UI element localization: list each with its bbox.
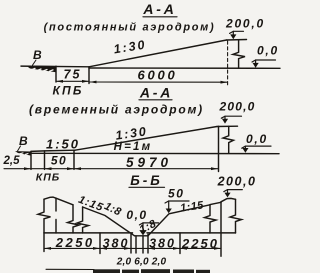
svg-text:75: 75 — [64, 68, 82, 82]
svg-text:КПБ: КПБ — [52, 84, 83, 98]
runway top line section 1 — [21, 65, 89, 68]
slope 1:30 section 1 — [89, 40, 227, 67]
svg-text:0,0: 0,0 — [246, 132, 268, 146]
dim 75 arrows — [56, 80, 89, 83]
right bank top — [221, 198, 236, 201]
slope 1:30 section 2 — [75, 127, 217, 151]
break vertical x73 with zigzag — [68, 205, 80, 233]
title2 underline — [139, 99, 172, 101]
svg-text:0,0: 0,0 — [126, 208, 147, 222]
dim arrows section 3 — [44, 247, 221, 250]
vertical x218.5 section 2 (platform edge + dim extension) — [218, 126, 220, 171]
slope to ditch left — [83, 207, 135, 236]
title B-B underline — [129, 186, 165, 188]
break vertical x210 with zigzag — [205, 205, 217, 233]
svg-text:КПБ: КПБ — [36, 172, 60, 184]
svg-text:Б-Б: Б-Б — [130, 173, 163, 188]
dim extension x100 — [99, 233, 101, 254]
vertical x74 section 2 — [73, 150, 75, 169]
elevation mark 0.0 section 3 — [126, 208, 158, 235]
svg-text:380: 380 — [103, 237, 130, 251]
slope 1:15 left segment — [56, 198, 73, 205]
svg-text:(временный аэродром): (временный аэродром) — [29, 103, 204, 117]
title underline — [143, 16, 177, 18]
dim 75 line — [56, 80, 89, 82]
left bank left vertical with zigzag — [38, 199, 51, 233]
top edge to right bank — [210, 202, 221, 204]
dim extension x44 below baseline — [43, 233, 45, 252]
svg-text:(постоянный аэродром): (постоянный аэродром) — [44, 22, 216, 34]
svg-text:380: 380 — [149, 237, 176, 251]
platform top right section 1 — [227, 39, 247, 42]
svg-text:200,0: 200,0 — [218, 100, 255, 114]
break vertical x82.6 with zigzag — [77, 207, 89, 233]
svg-text:50: 50 — [168, 187, 184, 201]
elevation mark 200.0 section 2 — [218, 100, 255, 124]
vertical x31 section 2 — [30, 152, 32, 170]
wedge2 hatch — [20, 153, 29, 154]
wedge B marker section 2 — [15, 151, 31, 156]
wedge B marker section 1 — [26, 66, 56, 73]
break vertical with zigzag section 1 — [233, 40, 245, 68]
svg-text:2,5: 2,5 — [3, 155, 21, 167]
left bank top section 3 — [44, 197, 56, 199]
elevation mark 200.0 section 3 — [217, 175, 257, 198]
svg-text:200,0: 200,0 — [225, 17, 265, 31]
small dim verticals center ditch — [130, 234, 132, 253]
dim line section 3 — [44, 247, 221, 249]
elevation mark 0.0 section 2 — [242, 132, 271, 153]
right bank right vertical with zigzag — [230, 199, 242, 233]
svg-text:А-А: А-А — [142, 1, 176, 17]
dim arrows section 2 — [24, 167, 218, 170]
svg-text:А-А: А-А — [139, 85, 173, 101]
bottom cropped caption band — [46, 268, 94, 270]
svg-text:5970: 5970 — [126, 155, 172, 170]
elevation mark 0.0 section 1 — [252, 44, 279, 68]
left bank right vertical (gap at zigzag) — [55, 198, 57, 211]
wedge hatch white dashes — [32, 68, 54, 71]
top surface 1:50 section 2 — [31, 150, 75, 151]
svg-text:Н=1м: Н=1м — [114, 141, 153, 153]
slope out of ditch right — [148, 205, 210, 236]
dashed extension vertical section 1 — [227, 41, 229, 87]
svg-text:2250: 2250 — [181, 236, 219, 251]
svg-text:0,0: 0,0 — [257, 44, 279, 58]
dim line row section 2 — [4, 168, 218, 170]
right bank left vertical + dim extension — [220, 202, 222, 256]
dim extension x180 — [179, 233, 181, 254]
svg-text:1:50: 1:50 — [46, 137, 80, 152]
vertical x56 section 1 — [55, 66, 57, 82]
leader B2 — [18, 146, 21, 151]
break vertical with zigzag section 2 — [223, 126, 234, 153]
ditch flat bottom — [135, 235, 149, 237]
platform top right section 2 — [217, 125, 238, 127]
ground line section 2 — [29, 152, 279, 154]
vertical x44.5 section 2 — [44, 151, 46, 169]
baseline section 3 — [44, 232, 133, 234]
svg-text:В: В — [33, 48, 42, 62]
vertical x89 section 1 — [88, 67, 90, 84]
dim 6000 line — [90, 81, 228, 83]
elevation mark 50 section 3 — [165, 187, 189, 214]
elevation mark 200.0 section 1 — [225, 17, 265, 40]
svg-text:6000: 6000 — [137, 68, 177, 83]
svg-text:50: 50 — [51, 154, 67, 168]
svg-text:2250: 2250 — [55, 235, 95, 250]
dim 6000 arrows — [90, 81, 228, 84]
svg-text:2,0 6,0 2,0: 2,0 6,0 2,0 — [116, 256, 167, 267]
ground line section 1 — [89, 67, 280, 69]
leader from B to wedge — [33, 60, 37, 65]
svg-text:200,0: 200,0 — [217, 175, 257, 189]
